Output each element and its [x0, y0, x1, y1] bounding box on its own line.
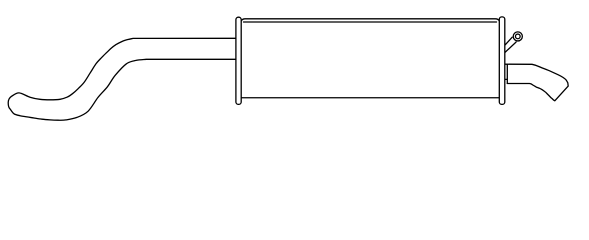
- hanger bracket stem: [505, 37, 516, 52]
- hanger eyelet outer ring: [513, 32, 522, 41]
- muffler body top seam inner line: [244, 21, 497, 23]
- tail pipe inner stub bottom edge: [505, 78, 507, 80]
- tail pipe with angled cut end: [505, 64, 568, 101]
- inlet pipe (S-bend, open end at left): [8, 38, 236, 120]
- hanger eyelet inner hole: [515, 34, 520, 39]
- tail pipe sleeve joint line: [506, 64, 508, 83]
- muffler body outline: [241, 19, 499, 98]
- right end cap: [499, 17, 505, 105]
- left end cap: [236, 17, 241, 104]
